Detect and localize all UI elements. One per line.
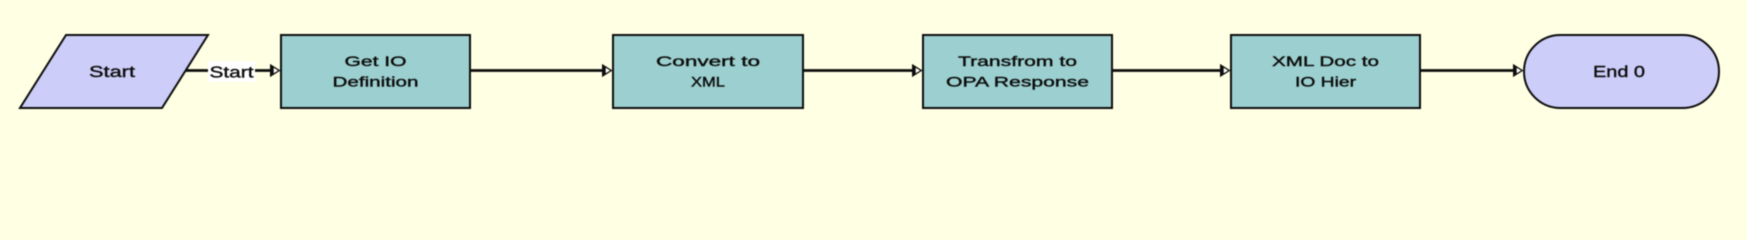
svg-text:OPA Response: OPA Response — [946, 74, 1089, 90]
arrowhead into Transfrom to OPA Response — [912, 64, 923, 77]
svg-text:Start: Start — [89, 64, 136, 81]
wire XML Doc to IO Hier to End 0 — [1420, 69, 1514, 72]
arrowhead into XML Doc to IO Hier — [1220, 64, 1231, 77]
svg-text:XML Doc to: XML Doc to — [1272, 53, 1379, 69]
terminator End 0 — [1524, 35, 1719, 108]
wire Get IO Definition to Convert to XML — [470, 69, 603, 72]
svg-text:End 0: End 0 — [1593, 64, 1645, 81]
box XML Doc to IO Hier — [1231, 35, 1420, 108]
box Transfrom to OPA Response — [923, 35, 1112, 108]
svg-text:Definition: Definition — [333, 74, 419, 90]
svg-text:IO Hier: IO Hier — [1295, 74, 1356, 90]
arrowhead into End 0 — [1513, 64, 1524, 77]
box Get IO Definition — [281, 35, 470, 108]
svg-text:XML: XML — [691, 74, 725, 90]
svg-text:Start: Start — [210, 65, 255, 82]
parallelogram Start — [20, 35, 208, 108]
svg-text:Convert to: Convert to — [656, 53, 760, 69]
svg-text:Transfrom to: Transfrom to — [958, 53, 1077, 69]
box Convert to XML — [613, 35, 803, 108]
node label Start — [208, 61, 255, 82]
wire Transfrom to OPA Response to XML Doc to IO Hier — [1112, 69, 1221, 72]
arrowhead into Get IO Definition — [270, 64, 281, 77]
arrowhead into Convert to XML — [602, 64, 613, 77]
wire Convert to XML to Transfrom to OPA Response — [803, 69, 913, 72]
wire Start to Get IO Definition — [186, 69, 271, 72]
svg-text:Get IO: Get IO — [345, 53, 407, 69]
